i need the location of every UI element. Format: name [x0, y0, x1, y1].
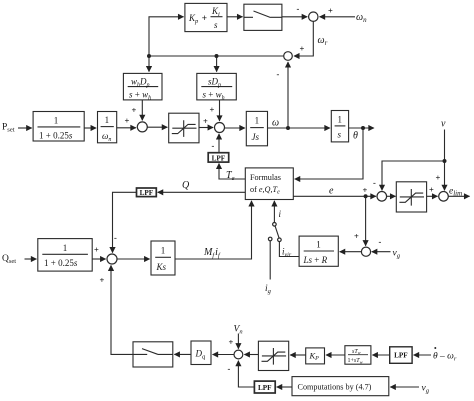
- svg-text:1: 1: [63, 243, 68, 253]
- svg-text:Formulas: Formulas: [250, 173, 281, 182]
- svg-text:1: 1: [338, 115, 343, 125]
- svg-text:Mfif: Mfif: [203, 247, 221, 259]
- svg-text:1 + 0.25s: 1 + 0.25s: [44, 258, 78, 268]
- svg-text:1: 1: [255, 116, 260, 126]
- svg-text:ωn: ωn: [356, 12, 367, 24]
- svg-text:LPF: LPF: [212, 154, 226, 162]
- svg-text:vg: vg: [422, 384, 430, 395]
- svg-text:-: -: [277, 69, 280, 79]
- svg-text:1 + 0.25s: 1 + 0.25s: [39, 131, 73, 141]
- svg-text:Js: Js: [252, 132, 260, 142]
- svg-text:+: +: [229, 337, 234, 347]
- svg-text:1: 1: [161, 246, 166, 256]
- svg-text:e: e: [329, 186, 334, 197]
- svg-text:Pset: Pset: [2, 123, 15, 134]
- svg-text:s: s: [338, 130, 342, 140]
- svg-text:Computations by (4.7): Computations by (4.7): [298, 383, 372, 392]
- svg-text:ig: ig: [265, 284, 272, 295]
- svg-text:-: -: [212, 141, 215, 151]
- svg-text:+: +: [300, 44, 305, 54]
- svg-text:LPF: LPF: [140, 189, 154, 197]
- svg-text:θ – ωr: θ – ωr: [433, 352, 457, 363]
- svg-text:+: +: [94, 245, 99, 255]
- svg-text:-: -: [228, 364, 231, 374]
- svg-text:+: +: [354, 231, 359, 241]
- svg-text:1+sTw: 1+sTw: [348, 358, 363, 364]
- svg-text:Ks: Ks: [156, 262, 167, 272]
- svg-text:Qset: Qset: [2, 254, 16, 265]
- svg-text:+: +: [132, 105, 137, 115]
- svg-text:LPF: LPF: [258, 384, 272, 392]
- svg-text:+: +: [436, 173, 441, 183]
- svg-text:-: -: [114, 233, 117, 243]
- svg-text:Q: Q: [182, 180, 190, 191]
- svg-text:s: s: [214, 20, 218, 30]
- svg-text:+: +: [125, 116, 130, 126]
- svg-text:+: +: [210, 105, 215, 115]
- svg-text:1: 1: [54, 116, 59, 126]
- svg-text:θ: θ: [353, 131, 358, 142]
- svg-text:1: 1: [316, 240, 321, 250]
- svg-text:v: v: [441, 119, 446, 130]
- svg-text:vg: vg: [393, 249, 401, 260]
- svg-text:+: +: [328, 6, 333, 16]
- svg-text:-: -: [297, 4, 300, 14]
- svg-text:LPF: LPF: [394, 352, 408, 360]
- svg-text:+: +: [100, 275, 105, 285]
- svg-text:sTw: sTw: [352, 349, 361, 355]
- svg-text:+: +: [363, 185, 368, 195]
- svg-text:+: +: [429, 185, 434, 195]
- svg-text:i: i: [279, 209, 282, 219]
- svg-text:-: -: [373, 177, 376, 187]
- svg-text:1: 1: [105, 115, 110, 125]
- svg-text:of e,Q,Te: of e,Q,Te: [250, 185, 280, 196]
- svg-text:elim: elim: [449, 186, 462, 197]
- svg-text:+: +: [203, 116, 208, 126]
- svg-text:-: -: [379, 236, 382, 246]
- svg-text:ω: ω: [272, 118, 279, 129]
- svg-text:ωr: ωr: [318, 35, 328, 47]
- svg-text:Te: Te: [226, 170, 235, 182]
- svg-text:Ls + R: Ls + R: [303, 255, 328, 265]
- svg-text:Vn: Vn: [234, 325, 243, 336]
